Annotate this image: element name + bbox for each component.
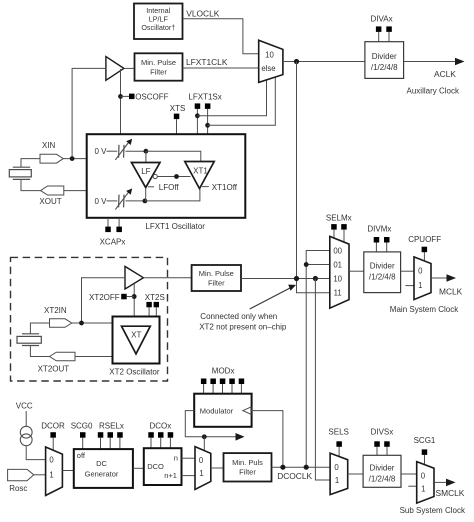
wire RSELx bit1 stub: [109, 438, 111, 449]
wire RSELx bit2 stub: [119, 438, 121, 449]
node XIN junction: [70, 156, 75, 161]
crystal Y1 LFXT1: [9, 167, 31, 179]
wire SELS stub: [338, 447, 340, 457]
pin DCOx bit 2: [168, 432, 174, 438]
svg-text:0: 0: [418, 267, 423, 276]
pin XTS control bit: [174, 114, 180, 120]
svg-text:1: 1: [335, 476, 339, 485]
pin DCOx bit 0: [148, 432, 154, 438]
wire DIVSx bit0 stub: [376, 447, 378, 456]
wire min pulse filter U4 to MCLK mux input 10: [241, 278, 330, 280]
arrow ACLK output: [455, 58, 465, 66]
wire XT2OFF pin to node: [127, 296, 135, 298]
wire buffer A1 output to min pulse filter: [124, 67, 135, 69]
pad Rosc: [8, 469, 34, 480]
node LFXT1Sx bit0 junction: [195, 113, 200, 118]
pad XT2IN: [50, 319, 72, 328]
svg-text:DIVAx: DIVAx: [371, 15, 393, 24]
mux M4 DCOR select: [46, 447, 63, 496]
arrow modulator feedback: [236, 433, 245, 441]
mux M2 MCLK source select: [330, 236, 349, 308]
boundary dashed XT2 optional section: [11, 257, 168, 381]
pin LFOff enable bubble: [153, 174, 157, 178]
svg-text:DCOx: DCOx: [150, 422, 172, 431]
pin LFXT1Sx bit 1: [205, 103, 211, 109]
node XTS LFOff junction: [174, 174, 179, 179]
svg-text:01: 01: [333, 260, 342, 269]
wire LFXT1Sx bit1 down to box: [207, 109, 209, 134]
svg-text:Filter: Filter: [208, 279, 225, 288]
wire DCOR stub: [52, 438, 54, 451]
svg-text:SCG0: SCG0: [71, 422, 93, 431]
wire XT2OFF node to buffer and oscillator: [133, 284, 135, 318]
buffer A1 LFXT1 output buffer: [106, 57, 124, 81]
svg-text:DCOCLK: DCOCLK: [277, 471, 312, 481]
wire DCOx bit1 stub: [160, 438, 162, 449]
svg-text:XT2 Oscillator: XT2 Oscillator: [109, 368, 160, 377]
wire Rosc pad to mux4 input 1: [34, 474, 46, 476]
wire mux4 output to DC generator: [62, 470, 73, 472]
wire current source to mux4 input 0: [26, 446, 45, 460]
pin MODx bit 4: [239, 379, 245, 385]
pin XT2OFF control bit: [121, 294, 127, 300]
wire mux1 output to divider1: [283, 61, 365, 63]
buffer A2 XT2 output buffer: [125, 266, 143, 289]
wire OSCOFF drop from buffer output: [120, 69, 122, 134]
svg-text:LFXT1Sx: LFXT1Sx: [188, 93, 221, 102]
svg-text:XIN: XIN: [42, 141, 56, 150]
wire SELMx bit1 stub: [343, 230, 345, 243]
divider U3 ACLK divider: [365, 42, 404, 79]
svg-text:XT2 not present on–chip: XT2 not present on–chip: [199, 322, 287, 331]
amplifier XT: [122, 326, 151, 354]
svg-text:SMCLK: SMCLK: [436, 488, 465, 498]
wire DIVSx bit1 stub: [386, 447, 388, 456]
wire crystal Y1 to XOUT pad: [21, 179, 41, 190]
svg-text:XT1Off: XT1Off: [212, 183, 238, 192]
wire MODx bit4 stub: [240, 384, 242, 394]
svg-text:XT2S: XT2S: [145, 293, 165, 302]
mux M1 ACLK source select: [259, 40, 283, 82]
svg-text:DCOR: DCOR: [41, 422, 65, 431]
svg-text:Generator: Generator: [85, 470, 119, 479]
svg-text:SELS: SELS: [328, 428, 348, 437]
svg-text:ACLK: ACLK: [434, 69, 456, 79]
svg-text:1: 1: [418, 281, 422, 290]
oscillator block XT2: [113, 317, 160, 364]
node DCOCLK rail junction: [304, 465, 309, 470]
pin XCAPx bit 1: [116, 227, 122, 233]
node XT2IN junction: [79, 321, 84, 326]
svg-text:VLOCLK: VLOCLK: [186, 9, 219, 19]
svg-text:Oscillator†: Oscillator†: [141, 23, 175, 32]
svg-text:XCAPx: XCAPx: [100, 238, 126, 247]
wire XCAPx stub 1: [118, 218, 120, 227]
svg-text:off: off: [77, 451, 86, 460]
svg-text:LFXT1 Oscillator: LFXT1 Oscillator: [145, 222, 205, 231]
node LFXT1Sx bit1 junction: [205, 123, 210, 128]
svg-text:1: 1: [199, 469, 203, 478]
svg-text:Filter: Filter: [239, 468, 256, 477]
wire divider3 to mux7 input 0: [401, 473, 417, 475]
svg-text:SCG1: SCG1: [414, 436, 436, 445]
svg-text:DCO: DCO: [147, 462, 164, 471]
pin MODx bit 1: [210, 379, 216, 385]
wire MODx bit1 stub: [212, 384, 214, 394]
node modulator to mux5 junction: [202, 434, 207, 439]
svg-text:Divider: Divider: [370, 262, 395, 271]
wire LF output to lower rail: [145, 188, 147, 201]
wire crystal Y2 to XT2OUT pad: [30, 346, 49, 357]
pin LFXT1Sx bit 0: [195, 103, 201, 109]
svg-text:DIVMx: DIVMx: [367, 225, 391, 234]
wire LFXT1Sx bit1 to mux1: [208, 77, 276, 125]
pin SCG0 control bit: [80, 432, 86, 438]
wire RSELx bit0 stub: [100, 438, 102, 449]
pin CPUOFF control bit: [422, 247, 428, 253]
svg-text:DC: DC: [96, 459, 107, 468]
pin OSCOFF control bit: [129, 94, 135, 100]
wire mux6 output to divider3: [348, 473, 363, 475]
wire LFXT1Sx bit0 to mux1: [197, 80, 266, 116]
wire XT2IN to crystal Y2: [30, 323, 49, 334]
wire divider1 to ACLK arrow: [404, 61, 456, 63]
svg-text:00: 00: [333, 246, 342, 255]
wire modulator output feedback: [185, 411, 236, 437]
pin SCG1 control bit: [422, 449, 428, 455]
wire LFXT1Sx bit0 down to box: [196, 109, 198, 134]
svg-text:10: 10: [333, 274, 342, 283]
wire DCO n to mux5: [182, 457, 196, 459]
wire mux7 to SMCLK arrow: [434, 481, 447, 483]
pin XT2S bit 1: [154, 302, 159, 307]
svg-text:10: 10: [265, 51, 274, 60]
capacitor C1 variable upper: [107, 139, 146, 160]
wire DC generator to DCO: [133, 467, 144, 469]
svg-text:0 V: 0 V: [95, 197, 108, 206]
mux M6 SMCLK source select: [330, 453, 348, 495]
wire divider2 to mux3 input 0: [401, 270, 414, 272]
pad XT2OUT: [50, 352, 76, 361]
wire XT2S bit1 stub: [155, 307, 157, 317]
wire XIN pad to oscillator: [63, 158, 86, 160]
mux M7 SCG1 gate: [417, 462, 434, 504]
svg-text:11: 11: [334, 289, 342, 298]
svg-text:Connected only when: Connected only when: [200, 312, 277, 321]
mux M5 DCO modulate select: [195, 447, 211, 490]
filter U2 Min. Pulse Filter: [135, 53, 183, 80]
wire mux7 input 1 stub: [408, 485, 416, 487]
svg-text:LFOff: LFOff: [159, 183, 180, 192]
node XT2CLK rail junction: [313, 276, 318, 281]
pin DIVMx bit 0: [374, 237, 380, 243]
arrow SMCLK output: [446, 479, 456, 487]
wire MCLK mux input 01: [306, 264, 330, 266]
svg-text:Min. Pulse: Min. Pulse: [141, 58, 176, 67]
svg-text:DIVSx: DIVSx: [371, 428, 394, 437]
svg-text:XT1: XT1: [193, 167, 208, 176]
pin DIVSx bit 0: [374, 441, 380, 447]
current source I1: [20, 426, 32, 445]
pin MODx bit 2: [220, 379, 226, 385]
svg-text:XT2OFF: XT2OFF: [89, 293, 120, 302]
svg-text:/1/2/4/8: /1/2/4/8: [369, 475, 396, 484]
node DCOCLK rail to 01 junction: [304, 262, 309, 267]
svg-text:CPUOFF: CPUOFF: [408, 235, 441, 244]
svg-text:/1/2/4/8: /1/2/4/8: [369, 273, 396, 282]
svg-text:Min. Pulse: Min. Pulse: [199, 269, 234, 278]
wire rail DCOCLK up to MCLK mux inputs 00 01: [306, 251, 330, 468]
wire DIVMx bit1 stub: [386, 243, 388, 252]
wire mux5 output to min puls filter: [211, 467, 224, 469]
wire buffer A2 output to min pulse filter U4: [143, 277, 191, 279]
svg-text:0: 0: [421, 471, 426, 480]
svg-text:XT2IN: XT2IN: [44, 306, 67, 315]
svg-text:RSELx: RSELx: [99, 422, 124, 431]
oscillator U1 Internal LP/LF Oscillator: [134, 4, 183, 40]
wire DCOCLK to SMCLK mux input 0: [272, 466, 331, 468]
oscillator U7 DCO: [144, 448, 182, 485]
pin DIVAx bit 0: [376, 26, 382, 32]
wire VLOCLK to mux1 input 10: [183, 19, 259, 54]
wire MODx bit0 stub: [203, 384, 205, 394]
svg-text:n+1: n+1: [164, 471, 177, 480]
wire OSCOFF dot to pin: [121, 95, 130, 97]
wire upper rail to XT1 input: [146, 151, 201, 161]
wire DIVMx bit0 stub: [375, 243, 377, 252]
svg-text:Sub System Clock: Sub System Clock: [400, 506, 466, 515]
pin SELS control bit: [336, 441, 342, 447]
svg-text:XTS: XTS: [170, 104, 186, 113]
svg-text:Divider: Divider: [370, 464, 395, 473]
svg-text:Rosc: Rosc: [9, 484, 27, 493]
wire DCOx bit2 stub: [169, 438, 171, 449]
pad XIN: [40, 154, 63, 163]
svg-text:LF: LF: [141, 167, 150, 176]
svg-text:XT2OUT: XT2OUT: [38, 364, 70, 373]
svg-text:/1/2/4/8: /1/2/4/8: [371, 63, 398, 72]
crystal Y2 XT2: [17, 334, 41, 346]
wire MODx bit2 stub: [222, 384, 224, 394]
wire mux3 input 1 stub: [405, 285, 414, 287]
svg-text:SELMx: SELMx: [326, 214, 352, 223]
wire SCG1 stub: [424, 455, 426, 465]
wire LFOff bubble to XT1: [157, 176, 190, 178]
wire DCOCLK feedback to modulator input: [251, 411, 283, 468]
wire SELMx bit0 stub: [333, 230, 335, 239]
capacitor C2 variable lower: [107, 188, 145, 209]
svg-text:Main System Clock: Main System Clock: [390, 305, 459, 314]
node DCOCLK feedback junction: [280, 465, 285, 470]
svg-text:OSCOFF: OSCOFF: [135, 93, 168, 102]
node XT2OFF junction: [132, 294, 137, 299]
divider U5 MCLK divider: [364, 252, 401, 293]
wire XIN node to buffer A1 input: [72, 68, 106, 158]
wire SCG0 stub: [82, 438, 84, 449]
wire DCOx bit0 stub: [150, 438, 152, 449]
svg-text:Min. Puls: Min. Puls: [232, 458, 263, 467]
wire XT2OUT pad to oscillator: [75, 356, 113, 358]
svg-text:0 V: 0 V: [95, 147, 108, 156]
wire LFXT1CLK to mux1 input else: [183, 67, 259, 69]
node OSCOFF junction: [118, 94, 123, 99]
node ACLK junction: [294, 59, 299, 64]
wire CPUOFF stub: [423, 252, 425, 261]
pin RSELx bit 1: [108, 432, 114, 438]
svg-text:Auxillary Clock: Auxillary Clock: [407, 87, 460, 96]
pin XCAPx bit 0: [105, 227, 111, 233]
wire MODx bit3 stub: [231, 384, 233, 394]
wire XTS to LFOff node: [176, 119, 178, 176]
svg-text:Filter: Filter: [150, 68, 167, 77]
pin DCOx bit 1: [158, 432, 164, 438]
svg-text:n: n: [174, 454, 178, 463]
wire DCO n+1 to mux5: [182, 475, 196, 477]
pin MODx bit 3: [229, 379, 235, 385]
pin DIVSx bit 1: [384, 441, 390, 447]
amplifier LF: [132, 163, 161, 188]
pin DCOR control bit: [50, 432, 56, 438]
wire upper rail to LF input: [145, 151, 147, 162]
filter U4 Min. Pulse Filter: [192, 265, 241, 291]
wire XT2IN pad to oscillator: [72, 322, 113, 324]
svg-text:LFXT1CLK: LFXT1CLK: [186, 57, 228, 67]
svg-text:VCC: VCC: [16, 402, 33, 411]
pin SELMx bit 0: [331, 224, 337, 230]
node upper rail junction: [144, 149, 149, 154]
wire XIN to crystal Y1: [21, 159, 40, 168]
pin SELMx bit 1: [341, 224, 347, 230]
modulator U8: [194, 394, 251, 427]
amplifier XT1: [185, 162, 214, 189]
divider U10 SMCLK divider: [363, 455, 401, 487]
svg-text:Modulator: Modulator: [200, 407, 234, 416]
svg-text:MCLK: MCLK: [439, 287, 463, 297]
wire XOUT pad to oscillator: [64, 190, 87, 192]
svg-text:0: 0: [49, 456, 54, 465]
wire lower rail to XT1 output: [145, 189, 200, 201]
pad XOUT: [41, 186, 64, 195]
arrow annotation pointer: [250, 285, 296, 309]
wire modulator node to mux5 select: [203, 437, 205, 451]
label XT1Off with tick: [202, 183, 238, 192]
svg-text:MODx: MODx: [212, 367, 235, 376]
wire XCAPx stub 0: [107, 218, 109, 227]
wire mux2 output to divider2: [349, 270, 364, 272]
label LFOff with tick: [148, 183, 179, 192]
svg-text:1: 1: [49, 470, 53, 479]
pin DIVMx bit 1: [384, 237, 390, 243]
svg-text:XT: XT: [131, 331, 141, 340]
oscillator block LFXT1: [87, 134, 246, 218]
wire DIVAx bit1 stub: [388, 32, 390, 42]
wire DIVAx bit0 stub: [378, 32, 380, 42]
node XT2CLK LFXT1CLK tie junction: [294, 276, 299, 281]
pin DIVAx bit 1: [386, 26, 392, 32]
mux M3 CPUOFF gate: [414, 257, 431, 300]
svg-text:else: else: [261, 64, 275, 73]
svg-text:Divider: Divider: [372, 52, 397, 61]
generator U6 DC Generator: [74, 449, 133, 488]
wire mux3 to MCLK arrow: [431, 277, 448, 279]
pin XT2S bit 0: [146, 302, 151, 307]
pin MODx bit 0: [201, 379, 207, 385]
wire XT2IN node to buffer A2 input: [82, 278, 126, 323]
svg-text:XOUT: XOUT: [39, 197, 61, 206]
pin RSELx bit 2: [117, 432, 123, 438]
node lower rail junction: [143, 199, 148, 204]
wire rail LFXT1CLK down to MCLK mux: [297, 62, 330, 293]
arrow MCLK output: [447, 274, 457, 282]
svg-text:0: 0: [334, 463, 339, 472]
svg-text:0: 0: [199, 456, 204, 465]
svg-text:1: 1: [421, 485, 425, 494]
filter U9 Min. Puls Filter: [224, 453, 272, 481]
wire rail XT2CLK down to SMCLK mux input 1: [315, 279, 330, 481]
wire VCC to current source: [25, 411, 27, 426]
wire XT2S bit0 stub: [148, 307, 150, 317]
pin RSELx bit 0: [98, 432, 104, 438]
